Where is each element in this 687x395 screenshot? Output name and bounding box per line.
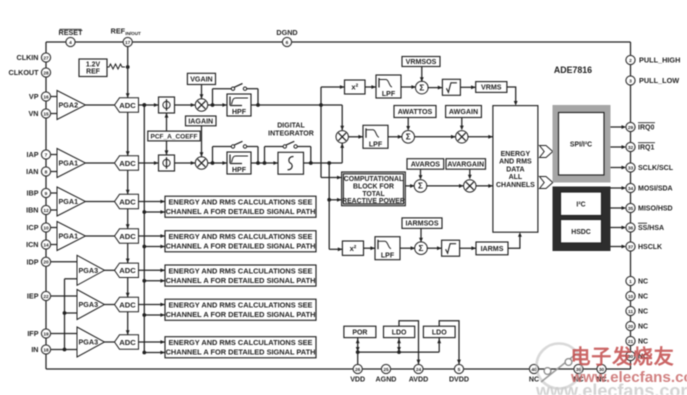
svg-text:ADC: ADC	[119, 300, 136, 309]
svg-text:29: 29	[628, 125, 634, 131]
svg-text:PGA3: PGA3	[79, 338, 99, 347]
svg-text:1.2V: 1.2V	[86, 61, 101, 68]
svg-text:33: 33	[628, 165, 634, 171]
svg-text:24: 24	[416, 367, 422, 373]
svg-text:ADC: ADC	[119, 101, 136, 110]
svg-text:35: 35	[628, 206, 634, 212]
svg-text:IBP: IBP	[27, 189, 39, 198]
svg-text:PGA2: PGA2	[59, 101, 79, 110]
svg-text:IAGAIN: IAGAIN	[188, 117, 213, 125]
svg-text:19: 19	[43, 331, 49, 337]
svg-text:VRMSOS: VRMSOS	[406, 58, 437, 66]
svg-text:IARMS: IARMS	[481, 245, 504, 253]
svg-text:20: 20	[628, 324, 634, 330]
svg-text:ENERGY AND RMS CALCULATIONS SE: ENERGY AND RMS CALCULATIONS SEE	[169, 301, 313, 310]
svg-text:MISO/HSD: MISO/HSD	[638, 206, 673, 213]
svg-text:CHANNEL A FOR DETAILED SIGNAL: CHANNEL A FOR DETAILED SIGNAL PATH	[166, 310, 316, 319]
svg-text:AGND: AGND	[376, 376, 397, 384]
svg-text:CLKIN: CLKIN	[17, 53, 39, 62]
svg-text:NC: NC	[638, 279, 648, 286]
svg-text:POR: POR	[352, 329, 367, 336]
svg-text:VGAIN: VGAIN	[190, 75, 212, 83]
svg-text:37: 37	[628, 244, 634, 250]
svg-text:10: 10	[628, 294, 634, 300]
svg-text:17: 17	[125, 40, 131, 46]
svg-text:AWGAIN: AWGAIN	[449, 108, 478, 116]
svg-text:VDD: VDD	[350, 376, 365, 384]
svg-text:20: 20	[43, 260, 49, 266]
svg-text:SS/HSA: SS/HSA	[638, 225, 664, 232]
svg-text:HPF: HPF	[232, 167, 247, 174]
svg-text:NC: NC	[638, 324, 648, 331]
svg-text:25: 25	[383, 367, 389, 373]
svg-text:ADC: ADC	[119, 232, 136, 241]
svg-text:AND RMS: AND RMS	[499, 159, 532, 166]
svg-text:VN: VN	[29, 109, 39, 118]
svg-text:PULL_HIGH: PULL_HIGH	[639, 56, 680, 65]
svg-text:IAP: IAP	[27, 150, 39, 159]
svg-text:TOTAL: TOTAL	[362, 191, 384, 198]
svg-text:CHANNELS: CHANNELS	[496, 182, 535, 189]
svg-text:10: 10	[43, 225, 49, 231]
svg-text:IN: IN	[31, 345, 38, 354]
svg-text:ICP: ICP	[27, 223, 39, 232]
svg-text:DIGITAL: DIGITAL	[277, 123, 305, 130]
svg-text:VP: VP	[29, 92, 39, 101]
svg-text:PGA1: PGA1	[59, 197, 79, 206]
svg-text:LPF: LPF	[382, 91, 396, 98]
svg-text:PCF_A_COEFF: PCF_A_COEFF	[151, 133, 198, 140]
svg-text:28: 28	[43, 70, 49, 76]
svg-text:电子发烧友: 电子发烧友	[571, 345, 675, 369]
svg-text:DGND: DGND	[276, 28, 297, 37]
svg-text:ADC: ADC	[119, 159, 136, 168]
svg-text:VRMS: VRMS	[481, 84, 502, 92]
svg-text:AVARGAIN: AVARGAIN	[447, 161, 484, 169]
svg-text:HSCLK: HSCLK	[638, 244, 662, 251]
svg-text:CHANNEL A FOR DETAILED SIGNAL: CHANNEL A FOR DETAILED SIGNAL PATH	[166, 276, 316, 285]
svg-text:15: 15	[43, 111, 49, 117]
svg-text:REF: REF	[86, 69, 100, 76]
svg-text:5: 5	[458, 367, 461, 373]
svg-text:PGA1: PGA1	[59, 232, 79, 241]
svg-text:LDO: LDO	[392, 329, 407, 336]
svg-text:IEP: IEP	[27, 292, 39, 301]
svg-text:COMPUTATIONAL: COMPUTATIONAL	[344, 176, 403, 183]
svg-text:4: 4	[69, 40, 72, 46]
svg-text:ENERGY AND RMS CALCULATIONS SE: ENERGY AND RMS CALCULATIONS SEE	[169, 232, 313, 241]
svg-text:14: 14	[43, 242, 49, 248]
svg-text:AVDD: AVDD	[409, 376, 429, 384]
svg-text:12: 12	[43, 208, 49, 214]
svg-text:www.elecfans.com: www.elecfans.com	[535, 381, 687, 395]
svg-text:DVDD: DVDD	[449, 376, 469, 384]
svg-text:x²: x²	[350, 244, 357, 253]
svg-text:IRQ1: IRQ1	[638, 145, 654, 152]
svg-text:IAN: IAN	[26, 167, 38, 176]
svg-text:34: 34	[628, 186, 634, 192]
svg-text:8: 8	[45, 169, 48, 175]
svg-text:CLKOUT: CLKOUT	[9, 68, 40, 77]
svg-text:ALL: ALL	[509, 174, 523, 181]
svg-text:ADC: ADC	[119, 338, 136, 347]
svg-text:CHANNEL A FOR DETAILED SIGNAL: CHANNEL A FOR DETAILED SIGNAL PATH	[166, 207, 316, 216]
svg-text:26: 26	[355, 367, 361, 373]
svg-text:PGA3: PGA3	[79, 266, 99, 275]
svg-text:ADC: ADC	[119, 197, 136, 206]
svg-text:27: 27	[43, 55, 49, 61]
svg-text:9: 9	[45, 191, 48, 197]
svg-text:NC: NC	[638, 294, 648, 301]
svg-text:REF: REF	[111, 27, 126, 36]
svg-text:HPF: HPF	[232, 109, 247, 116]
svg-text:IARMSOS: IARMSOS	[405, 220, 438, 228]
svg-text:AWATTOS: AWATTOS	[398, 108, 433, 116]
svg-text:IBN: IBN	[26, 206, 38, 215]
svg-text:22: 22	[43, 294, 49, 300]
svg-text:AVAROS: AVAROS	[411, 161, 441, 169]
svg-text:NC: NC	[638, 309, 648, 316]
svg-text:ENERGY: ENERGY	[501, 151, 531, 158]
svg-text:LPF: LPF	[369, 141, 383, 148]
svg-text:21: 21	[628, 339, 634, 345]
svg-text:ICN: ICN	[26, 240, 38, 249]
svg-text:Σ: Σ	[419, 83, 424, 92]
svg-text:INTEGRATOR: INTEGRATOR	[268, 130, 314, 137]
svg-text:SCLK/SCL: SCLK/SCL	[638, 165, 674, 172]
svg-text:Σ: Σ	[418, 182, 423, 191]
svg-text:18: 18	[43, 347, 49, 353]
svg-text:7: 7	[45, 152, 48, 158]
svg-text:ENERGY AND RMS CALCULATIONS SE: ENERGY AND RMS CALCULATIONS SEE	[169, 198, 313, 207]
svg-text:3: 3	[629, 78, 632, 84]
svg-text:1: 1	[629, 279, 632, 285]
svg-text:ADE7816: ADE7816	[554, 65, 592, 75]
svg-text:PGA3: PGA3	[79, 300, 99, 309]
svg-text:ENERGY AND RMS CALCULATIONS SE: ENERGY AND RMS CALCULATIONS SEE	[169, 266, 313, 275]
svg-text:2: 2	[629, 58, 632, 64]
svg-text:36: 36	[628, 225, 634, 231]
svg-text:Σ: Σ	[419, 244, 424, 253]
svg-text:IRQ0: IRQ0	[638, 125, 654, 132]
svg-text:LPF: LPF	[381, 253, 395, 260]
svg-text:CHANNEL A FOR DETAILED SIGNAL: CHANNEL A FOR DETAILED SIGNAL PATH	[166, 242, 316, 251]
svg-text:Σ: Σ	[406, 133, 411, 142]
svg-text:IFP: IFP	[27, 329, 38, 338]
svg-text:I²C: I²C	[576, 202, 585, 209]
svg-text:PGA1: PGA1	[59, 159, 79, 168]
svg-text:PULL_LOW: PULL_LOW	[639, 76, 679, 85]
svg-text:REACTIVE POWER: REACTIVE POWER	[342, 198, 405, 205]
svg-text:SPI/I²C: SPI/I²C	[570, 141, 592, 148]
svg-text:16: 16	[43, 94, 49, 100]
svg-text:NC: NC	[638, 339, 648, 346]
svg-text:LDO: LDO	[432, 329, 447, 336]
svg-text:ADC: ADC	[119, 266, 136, 275]
svg-text:MOSI/SDA: MOSI/SDA	[638, 186, 673, 193]
svg-text:IDP: IDP	[27, 257, 39, 266]
svg-text:CHANNEL A FOR DETAILED SIGNAL: CHANNEL A FOR DETAILED SIGNAL PATH	[166, 348, 316, 357]
svg-text:IN/OUT: IN/OUT	[125, 31, 141, 36]
svg-text:32: 32	[628, 145, 634, 151]
svg-text:6: 6	[286, 40, 289, 46]
svg-text:DATA: DATA	[506, 166, 524, 173]
svg-text:x²: x²	[351, 83, 358, 92]
svg-text:HSDC: HSDC	[571, 229, 591, 236]
svg-text:BLOCK FOR: BLOCK FOR	[353, 183, 394, 190]
svg-text:11: 11	[628, 309, 633, 315]
svg-text:ENERGY AND RMS CALCULATIONS SE: ENERGY AND RMS CALCULATIONS SEE	[169, 338, 313, 347]
